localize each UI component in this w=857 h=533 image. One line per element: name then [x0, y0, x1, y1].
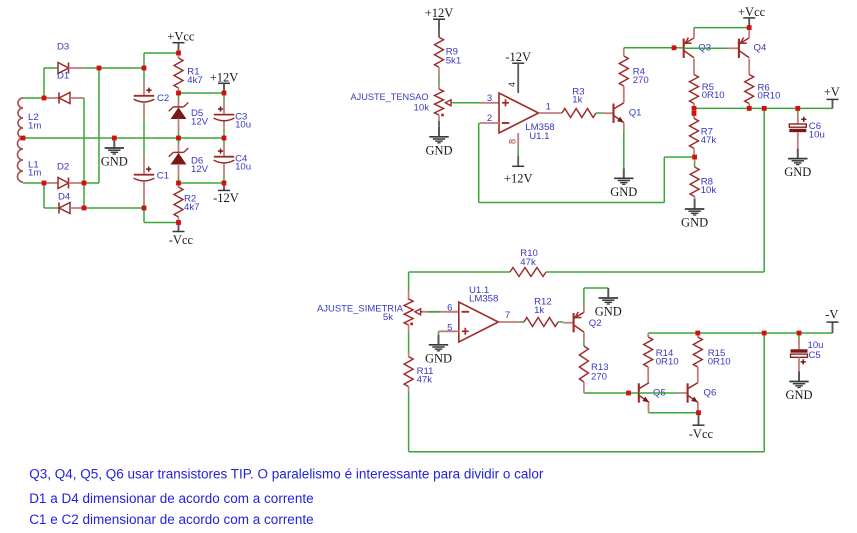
- wire feedback across: [479, 202, 665, 204]
- resistor R14: [644, 333, 653, 383]
- capacitor C1: [134, 156, 155, 209]
- svg-text:GND: GND: [101, 155, 128, 169]
- wire L1 bottom to D2 junction: [22, 182, 24, 185]
- wire D3 anode from left vert: [44, 67, 58, 69]
- resistor R12: [524, 318, 558, 327]
- transistor Q4 (PNP): [739, 38, 749, 59]
- svg-text:-V: -V: [825, 308, 838, 322]
- resistor R7: [690, 113, 699, 157]
- wire down x=144 to D3 row: [143, 53, 145, 69]
- label R12 value: [534, 305, 544, 316]
- junction C2 top node: [142, 66, 147, 71]
- svg-text:10u: 10u: [809, 129, 825, 140]
- power flag -Vcc (right): [689, 413, 714, 441]
- svg-text:0R10: 0R10: [702, 90, 725, 101]
- wire pin7 to R12: [520, 321, 524, 323]
- junction -V loop tap: [762, 331, 767, 336]
- Q2 base pin: [563, 322, 573, 324]
- label L1 ref: [28, 159, 39, 170]
- svg-text:D4: D4: [58, 191, 71, 202]
- pin number 8: [508, 139, 518, 144]
- label R10 ref: [520, 248, 538, 259]
- junction C5 tap: [797, 331, 802, 336]
- svg-text:10k: 10k: [701, 185, 717, 196]
- op-amp plus input marker: [502, 99, 509, 106]
- ground GND (C5): [785, 372, 812, 403]
- wire -12V node: [179, 182, 225, 184]
- svg-text:1m: 1m: [28, 167, 41, 178]
- svg-text:+12V: +12V: [210, 70, 239, 84]
- wire Q2 emitter to GND: [584, 287, 608, 289]
- label Q4: [754, 43, 767, 54]
- op-amp pin 1 lead: [539, 112, 563, 114]
- junction +Vcc right: [747, 25, 752, 30]
- junction base row: [626, 391, 631, 396]
- svg-text:8: 8: [508, 139, 518, 144]
- label AJUSTE_SIMETRIA value: [383, 312, 393, 323]
- Q2 collector leg: [583, 332, 585, 346]
- svg-text:Q1: Q1: [629, 107, 642, 118]
- transistor Q6 (NPN): [688, 383, 698, 403]
- potentiometer AJUSTE_SIMETRIA: [404, 299, 422, 325]
- svg-text:47k: 47k: [701, 135, 717, 146]
- power flag +12V (R9 top): [425, 6, 454, 28]
- label R4 value: [633, 75, 649, 86]
- power flag +12V (left): [210, 70, 239, 92]
- junction +V rail to lower tap: [762, 106, 767, 111]
- svg-text:10u: 10u: [235, 119, 251, 130]
- pin number 3: [487, 93, 492, 104]
- label L1 value: [28, 167, 41, 178]
- svg-text:GND: GND: [784, 165, 811, 179]
- label R12 ref: [534, 297, 552, 308]
- op-amp pin 2 lead: [480, 122, 500, 124]
- wire pot SIMETRIA top: [408, 272, 410, 300]
- wire +12V node: [179, 92, 225, 94]
- op-amp minus input marker (lower): [462, 311, 470, 313]
- label C6 value: [809, 129, 825, 140]
- svg-text:4k7: 4k7: [184, 202, 199, 213]
- wire D2 anode pin: [44, 182, 58, 184]
- wire R13 to Q5 base: [584, 392, 629, 394]
- resistor R4: [619, 48, 628, 88]
- label R1 value: [187, 75, 202, 86]
- label D2: [57, 162, 69, 173]
- svg-text:10k: 10k: [414, 103, 430, 114]
- label R11 ref: [417, 366, 434, 377]
- label R1 ref: [187, 67, 199, 78]
- pin number 7: [505, 310, 510, 321]
- Q1 collector leg: [623, 88, 625, 103]
- wire D1 cathode pin: [44, 97, 59, 99]
- label C4 value: [235, 162, 251, 173]
- label D4: [58, 191, 71, 202]
- wire x99 vertical: [98, 68, 100, 183]
- junction R7 top marker: [692, 111, 697, 116]
- label R15 value: [708, 356, 731, 367]
- junction D1/L2/x44: [42, 96, 47, 101]
- wire D1 to x84 corner: [83, 97, 85, 99]
- label R15 ref: [708, 348, 726, 359]
- wire +Vcc rail right: [694, 27, 749, 29]
- wire L2 top to junction: [23, 97, 44, 99]
- wire to R2 bottom: [144, 222, 179, 224]
- junction R5 bottom: [692, 106, 697, 111]
- transistor Q1: [614, 103, 624, 123]
- svg-text:5k1: 5k1: [446, 55, 461, 66]
- label C4 ref: [235, 154, 248, 165]
- resistor R8: [690, 157, 699, 199]
- wire bottom loop across: [409, 451, 765, 453]
- power flag -Vcc (left): [169, 223, 194, 247]
- wire +Vcc to C2 column: [144, 52, 179, 54]
- label R3 ref: [572, 86, 584, 97]
- svg-text:+12V: +12V: [504, 171, 533, 185]
- svg-text:1: 1: [546, 101, 551, 112]
- label U1.1 (upper): [529, 131, 549, 142]
- junction node x99/D3 row: [97, 66, 102, 71]
- svg-text:GND: GND: [610, 185, 637, 199]
- transistor Q3 (PNP): [684, 38, 694, 59]
- svg-text:D1: D1: [57, 71, 69, 82]
- label R2 value: [184, 202, 199, 213]
- label C3 ref: [235, 112, 247, 123]
- wire D3 row to x99: [84, 67, 99, 69]
- svg-text:C1: C1: [157, 171, 169, 182]
- Q6 base pin: [677, 392, 687, 394]
- zener D6: [169, 138, 189, 183]
- wire x44 vertical D2-D4: [43, 183, 45, 208]
- pin number 2: [487, 113, 492, 124]
- svg-text:D3: D3: [57, 41, 69, 52]
- label D1: [57, 71, 69, 82]
- resistor R13: [579, 346, 588, 393]
- op-amp plus input marker (lower): [462, 328, 469, 335]
- wire Q5 emitter to Q6 emitter: [649, 412, 699, 414]
- svg-text:+V: +V: [824, 85, 840, 99]
- svg-text:+12V: +12V: [425, 6, 454, 20]
- pin number 4: [507, 82, 517, 87]
- label D3: [57, 41, 69, 52]
- svg-text:-Vcc: -Vcc: [689, 427, 714, 441]
- junction x84/D2 row: [82, 181, 87, 186]
- label R9 ref: [446, 47, 458, 58]
- diode D4: [59, 203, 70, 214]
- wire D4 left pin run: [44, 207, 59, 209]
- transistor Q5 (NPN): [639, 383, 649, 403]
- ground GND (left rail): [101, 138, 128, 169]
- potentiometer AJUSTE_TENSAO: [435, 89, 453, 115]
- svg-text:5: 5: [447, 322, 452, 333]
- power flag +Vcc (right): [738, 5, 766, 28]
- resistor R1: [174, 53, 183, 93]
- wire D4 row to C1 bottom: [84, 207, 144, 209]
- svg-text:-Vcc: -Vcc: [169, 233, 194, 247]
- junction C1 bottom node: [142, 206, 147, 211]
- diode D2: [58, 178, 69, 189]
- op-amp minus input marker: [502, 122, 510, 124]
- svg-text:1m: 1m: [28, 120, 41, 131]
- capacitor C4: [214, 138, 235, 183]
- label R8 value: [701, 185, 717, 196]
- Q3 emitter leg: [693, 28, 695, 38]
- label R7 value: [701, 135, 717, 146]
- wire R4 top to base tie: [624, 47, 674, 49]
- junction C6 tap: [795, 106, 800, 111]
- label C2: [157, 93, 169, 104]
- Q5 emitter leg: [648, 402, 650, 412]
- inductor L2: [18, 98, 23, 138]
- ground GND (C6): [784, 149, 811, 180]
- pin number 5: [447, 322, 452, 333]
- junction D6/R2/-12V node: [176, 181, 181, 186]
- wire D2 cathode pin: [69, 182, 85, 184]
- svg-text:-12V: -12V: [505, 50, 531, 64]
- junction emitters/-Vcc: [696, 410, 701, 415]
- svg-text:GND: GND: [681, 216, 708, 230]
- op-amp U1.1 pin 3 lead: [480, 102, 500, 104]
- svg-text:1k: 1k: [572, 94, 582, 105]
- label R14 ref: [656, 348, 674, 359]
- junction R6 bottom: [747, 106, 752, 111]
- Q3 collector leg: [693, 59, 695, 75]
- label L2 ref: [28, 112, 39, 123]
- comment line 2: [29, 491, 313, 506]
- junction base tie: [672, 45, 677, 50]
- power flag +12V (op-amp pin 8): [504, 166, 533, 185]
- label R9 value: [446, 55, 461, 66]
- label Q3: [698, 43, 711, 54]
- power flag -V: [825, 308, 838, 333]
- wire L1 bottom run: [23, 182, 44, 184]
- label C5 ref: [809, 350, 821, 361]
- power flag -12V (left): [213, 183, 239, 205]
- svg-text:5k: 5k: [383, 312, 393, 323]
- junction C4 bottom/-12V: [222, 181, 227, 186]
- svg-text:0R10: 0R10: [758, 91, 781, 102]
- wire base row to Q5: [629, 392, 639, 394]
- Q2 emitter leg: [583, 288, 585, 313]
- resistor R5: [690, 75, 699, 109]
- label AJUSTE_TENSAO value: [414, 103, 430, 114]
- junction R2 bottom/-Vcc: [176, 220, 181, 225]
- junction R7/R8 divider: [692, 155, 697, 160]
- svg-text:270: 270: [633, 75, 649, 86]
- ground GND (Q2): [595, 288, 622, 319]
- capacitor C5: [791, 333, 808, 372]
- svg-text:+Vcc: +Vcc: [738, 5, 766, 19]
- label C3 value: [235, 119, 251, 130]
- -V rail: [648, 332, 832, 334]
- svg-text:AJUSTE_TENSAO: AJUSTE_TENSAO: [351, 92, 429, 103]
- svg-text:7: 7: [505, 310, 510, 321]
- power flag +Vcc (left): [167, 30, 195, 53]
- svg-text:C1 e C2 dimensionar de acordo: C1 e C2 dimensionar de acordo com a corr…: [29, 512, 313, 527]
- Q4 emitter leg: [748, 28, 750, 38]
- label C6 ref: [809, 121, 821, 132]
- wire feedback to divider: [664, 156, 694, 158]
- svg-text:0R10: 0R10: [656, 356, 679, 367]
- label R6 value: [758, 91, 781, 102]
- resistor R2: [174, 183, 183, 223]
- svg-text:6: 6: [447, 302, 452, 313]
- inductor L1: [18, 138, 23, 182]
- svg-text:47k: 47k: [520, 257, 536, 268]
- svg-text:4: 4: [507, 82, 517, 87]
- label Q6: [704, 387, 717, 398]
- svg-text:-12V: -12V: [213, 191, 239, 205]
- resistor R9: [435, 29, 444, 90]
- label R14 value: [656, 356, 679, 367]
- resistor R6: [745, 75, 754, 109]
- svg-text:LM358: LM358: [469, 294, 498, 305]
- transistor Q2 (PNP): [574, 312, 584, 333]
- svg-text:4k7: 4k7: [187, 75, 202, 86]
- wire R10 row right: [546, 271, 764, 273]
- svg-text:1k: 1k: [534, 305, 544, 316]
- label AJUSTE_SIMETRIA: [317, 303, 404, 314]
- svg-text:D1 a D4 dimensionar de acordo: D1 a D4 dimensionar de acordo com a corr…: [29, 491, 313, 506]
- Q4 collector leg: [748, 59, 750, 75]
- label C5 value: [808, 340, 824, 351]
- junction R15 top: [695, 331, 700, 336]
- capacitor C6: [789, 108, 806, 148]
- wire R10 row left: [409, 271, 510, 273]
- label R3 value: [572, 94, 582, 105]
- label R4 ref: [633, 67, 646, 78]
- zener D5: [169, 93, 189, 138]
- wire R11 bottom down: [408, 392, 410, 452]
- label R5 value: [702, 90, 725, 101]
- pin number 1: [546, 101, 551, 112]
- label L2 value: [28, 120, 41, 131]
- label R11 value: [417, 375, 433, 386]
- label LM358 (lower): [469, 294, 498, 305]
- op-amp U1.1 (upper LM358): [499, 93, 539, 133]
- diode D3: [58, 63, 69, 74]
- label D6 value: [191, 164, 209, 175]
- label R10 value: [520, 257, 536, 268]
- svg-text:Q4: Q4: [754, 43, 767, 54]
- junction +12V flag tap: [222, 91, 227, 96]
- svg-text:GND: GND: [595, 305, 622, 319]
- wire bottom loop up to -V rail: [763, 333, 765, 452]
- svg-text:10u: 10u: [235, 162, 251, 173]
- svg-text:GND: GND: [785, 388, 812, 402]
- label C1: [157, 171, 169, 182]
- wire base tie to Q3: [674, 47, 684, 49]
- label R13 ref: [591, 362, 609, 373]
- junction C3/C4/GND rail: [222, 136, 227, 141]
- wire C1 node down: [143, 208, 145, 223]
- wire D1 anode pin: [70, 97, 84, 99]
- svg-text:3: 3: [487, 93, 492, 104]
- label AJUSTE_TENSAO: [351, 92, 429, 103]
- resistor R10: [510, 268, 546, 277]
- svg-text:47k: 47k: [417, 375, 433, 386]
- junction +Vcc/R1/wire: [176, 51, 181, 56]
- label R8 ref: [701, 177, 713, 188]
- comment line 3: [29, 512, 313, 527]
- label Q1: [629, 107, 642, 118]
- op-amp pin 7 lead: [498, 321, 520, 323]
- wire GND rail y=138: [23, 137, 224, 139]
- wire +V rail: [694, 107, 833, 109]
- resistor R3: [562, 109, 596, 118]
- comment line 1: [29, 466, 544, 481]
- wire Q3-Q4 base tie: [684, 47, 729, 49]
- wire +V tap vertical: [763, 108, 765, 272]
- op-amp pin 6 lead: [449, 311, 459, 313]
- Q1 emitter leg: [623, 123, 625, 169]
- op-amp pin 5 lead: [439, 330, 459, 332]
- label D5 value: [191, 116, 209, 127]
- svg-text:C2: C2: [157, 93, 169, 104]
- label D5 ref: [191, 108, 203, 119]
- junction R1/D5/+12V node: [176, 91, 181, 96]
- resistor R15: [693, 333, 702, 383]
- svg-text:C5: C5: [809, 350, 821, 361]
- label R2 ref: [184, 194, 196, 205]
- label D6 ref: [191, 156, 203, 167]
- op-amp pin 8 lead: [517, 133, 519, 166]
- diode D1: [59, 93, 70, 104]
- junction GND symbol tap: [112, 136, 117, 141]
- op-amp U1.1 (lower LM358): [459, 302, 499, 342]
- wire wiper to op-amp pin 6: [422, 311, 459, 313]
- label U1.1 (lower): [469, 285, 489, 296]
- svg-text:0R10: 0R10: [708, 356, 731, 367]
- Q6 emitter leg: [697, 402, 699, 412]
- power flag -12V (op-amp pin 4): [505, 50, 531, 64]
- wire pot wiper to op-amp pin 3: [453, 102, 480, 104]
- pin number 6: [447, 302, 452, 313]
- resistor R11: [404, 325, 413, 392]
- svg-text:Q3, Q4, Q5, Q6 usar transistor: Q3, Q4, Q5, Q6 usar transistores TIP. O …: [29, 466, 544, 481]
- wire D2 row to x99: [84, 182, 99, 184]
- svg-text:D2: D2: [57, 162, 69, 173]
- ground GND (Q1 emitter): [610, 168, 637, 199]
- wire R3 to Q1 base: [596, 112, 603, 114]
- wire feedback up: [663, 157, 665, 203]
- label R6 ref: [758, 83, 770, 94]
- wire D4 anode pin: [70, 207, 84, 209]
- wire Q5-Q6 base tie: [639, 392, 678, 394]
- wire left vertical x44 D3-D1: [43, 68, 45, 98]
- svg-text:Q2: Q2: [589, 318, 602, 329]
- label R5 ref: [702, 82, 714, 93]
- Q4 base pin: [729, 47, 739, 49]
- junction transformer centre tap: [21, 136, 26, 141]
- svg-text:270: 270: [591, 371, 607, 382]
- junction D5/D6/GND rail: [176, 136, 181, 141]
- capacitor C2: [134, 69, 155, 156]
- ground GND (op-amp pin 5): [425, 331, 452, 365]
- wire D3 row to x144: [99, 67, 144, 69]
- power flag +V: [824, 85, 840, 109]
- svg-text:+Vcc: +Vcc: [167, 30, 195, 44]
- Q1 base pin: [603, 112, 613, 114]
- wire R12 to Q2 base: [558, 321, 563, 323]
- svg-text:12V: 12V: [191, 116, 209, 127]
- ground GND (pot TENSAO): [425, 115, 452, 157]
- label Q5: [653, 387, 666, 398]
- label R7 ref: [701, 127, 713, 138]
- svg-text:U1.1: U1.1: [529, 131, 549, 142]
- junction x84/D4 row: [82, 206, 87, 211]
- ground GND (R8): [681, 199, 708, 230]
- wire D3 cathode pin: [69, 67, 85, 69]
